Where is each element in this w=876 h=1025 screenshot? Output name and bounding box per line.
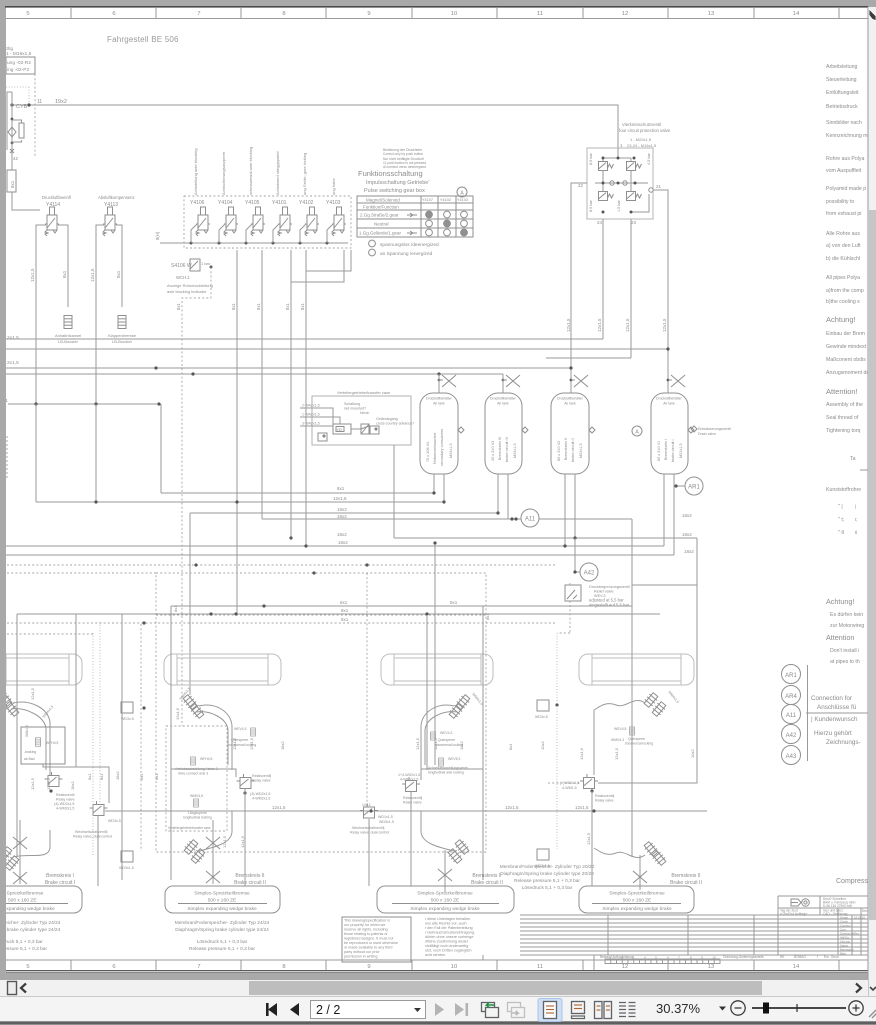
svg-text:Relay valve, dual control: Relay valve, dual control	[350, 831, 389, 835]
battery box -02-R2	[6, 57, 35, 74]
svg-text:LB-Booster: LB-Booster	[58, 339, 79, 344]
svg-text:Ers: Ers	[824, 955, 829, 959]
svg-text:Anhaltritzansel: Anhaltritzansel	[55, 333, 81, 338]
wire e1 line	[8, 403, 160, 405]
svg-text:LB-Booster: LB-Booster	[112, 339, 133, 344]
svg-text:12x1,5: 12x1,5	[30, 687, 35, 700]
dashed line down from relief valve	[569, 605, 571, 633]
bus junction dots 2	[235, 491, 576, 547]
drain x axle2 b	[206, 871, 220, 883]
wire Y4113 left branch	[96, 225, 104, 503]
svg-text:Attention!: Attention!	[826, 387, 858, 396]
svg-text:M22x1,5: M22x1,5	[679, 443, 683, 458]
svg-text:Bremskreis III: Bremskreis III	[498, 437, 502, 460]
drain x axle4	[633, 871, 647, 883]
gear valve group frame dash-dot	[184, 196, 351, 248]
function table	[357, 196, 473, 237]
svg-text:500 x 160 ZE: 500 x 160 ZE	[623, 898, 652, 904]
svg-text:or made available to any third: or made available to any third	[344, 946, 392, 950]
wire Y4114 right branch to booster	[58, 225, 68, 307]
svg-text:8x1: 8x1	[485, 613, 490, 620]
horizontal scrollbar thumb	[249, 981, 762, 995]
title block row texts	[840, 915, 865, 955]
riser transfer case	[393, 445, 395, 538]
brake chamber axle4 upper	[643, 691, 660, 708]
svg-text:Quersperre: Quersperre	[628, 737, 645, 741]
scrollbar left arrow	[21, 984, 26, 993]
svg-text:10x2: 10x2	[459, 741, 464, 750]
svg-text:tl: tl	[855, 530, 857, 535]
svg-text:Druckluftbehälter: Druckluftbehälter	[426, 397, 453, 401]
svg-text:b) die Kühlschl: b) die Kühlschl	[826, 256, 860, 262]
svg-text:Schaltung: Schaltung	[344, 402, 360, 406]
svg-text:AR4: AR4	[785, 694, 797, 700]
air tank 3	[551, 393, 595, 474]
verticals lower right	[426, 615, 428, 770]
scrollbar right arrow	[856, 984, 861, 993]
control note above valves	[383, 148, 426, 169]
lower right return wire	[631, 194, 649, 212]
svg-text:4-WM1,5: 4-WM1,5	[562, 786, 577, 790]
svg-text:Arbeitsleitung: Arbeitsleitung	[826, 64, 858, 70]
svg-text:4-WM2x1,5: 4-WM2x1,5	[252, 797, 270, 801]
pipe axle4 lower	[594, 848, 645, 858]
svg-text:12x1,5: 12x1,5	[575, 805, 589, 810]
svg-text:2-WA2x1,5: 2-WA2x1,5	[302, 404, 320, 408]
air tank 2	[485, 393, 528, 474]
svg-text:party without our prior: party without our prior	[344, 950, 380, 954]
air tank 4	[651, 393, 694, 474]
lower bus 8x1 h	[171, 605, 632, 607]
svg-text:M22x1,5: M22x1,5	[513, 443, 517, 458]
svg-text:12: 12	[622, 964, 628, 970]
protection valve mid rail	[595, 182, 648, 184]
svg-text:Air tank: Air tank	[663, 402, 675, 406]
svg-text:8: 8	[282, 11, 285, 17]
svg-text:18x2: 18x2	[338, 540, 348, 545]
wire bus to axle4 relay	[598, 538, 697, 783]
svg-text:WFH4,5: WFH4,5	[200, 757, 213, 761]
svg-text:14: 14	[793, 11, 800, 17]
svg-text:ng brake cylinder type 24/24: ng brake cylinder type 24/24	[0, 927, 61, 933]
logo	[791, 899, 801, 906]
svg-text:Brake circuit II: Brake circuit II	[670, 880, 702, 886]
svg-text:Air tank: Air tank	[433, 402, 445, 406]
bus 18x2 main lower	[394, 537, 697, 539]
toolbar: continuous icon	[572, 1002, 585, 1014]
svg-text:12x1,5: 12x1,5	[579, 747, 584, 760]
brake feed vertical box3	[410, 792, 412, 886]
top ruler band bottom line	[6, 18, 868, 20]
dryer column	[7, 92, 12, 150]
drain valve x tank3	[574, 375, 588, 387]
wire left edge down	[12, 192, 40, 210]
svg-text:BOMAG: BOMAG	[794, 955, 806, 959]
svg-text:pressure 5,1 + 0,3 bar: pressure 5,1 + 0,3 bar	[0, 946, 47, 952]
svg-text:Membran/Federspeicher- Zylinde: Membran/Federspeicher- Zylinder Typ 20/2…	[500, 864, 595, 870]
svg-text:12x1,5: 12x1,5	[30, 777, 35, 790]
vertical line below title	[593, 955, 595, 970]
wire stub AR1	[674, 485, 685, 487]
svg-text:brake circuit I: brake circuit I	[671, 439, 675, 462]
svg-text:M22x1,5: M22x1,5	[579, 443, 583, 458]
svg-text:10: 10	[451, 964, 457, 970]
svg-text:1,5 bar: 1,5 bar	[617, 199, 621, 212]
svg-text:Impulsschaltung Getriebe': Impulsschaltung Getriebe'	[366, 180, 429, 186]
svg-text:Relay valve: Relay valve	[403, 801, 422, 805]
toolbar: zoom in circle	[849, 1001, 863, 1015]
page top dark edge	[5, 6, 868, 8]
axle 3 capsule	[381, 654, 493, 685]
svg-text:secondary consumers: secondary consumers	[440, 429, 444, 466]
svg-text:our property for which we: our property for which we	[344, 923, 385, 927]
toolbar: prev page button	[290, 1003, 299, 1016]
check valve diamond	[8, 127, 16, 137]
svg-text:ung -02-R2: ung -02-R2	[7, 60, 31, 66]
drain x axle3	[438, 869, 452, 881]
svg-text:Relay valve: Relay valve	[252, 779, 271, 783]
svg-text:Bestand Aufbauleistung: Bestand Aufbauleistung	[600, 955, 634, 959]
svg-text:Release pressure 5,1 + 0,3 bar: Release pressure 5,1 + 0,3 bar	[189, 946, 255, 952]
svg-text:ung Gelde; gore locking: ung Gelde; gore locking	[302, 153, 307, 195]
svg-text:4-WM2x1,5: 4-WM2x1,5	[56, 807, 74, 811]
wire drops to lower bus	[35, 404, 37, 502]
toolbar: facing pages icon	[595, 1002, 612, 1019]
svg-text:Gewinde mindest: Gewinde mindest	[826, 344, 867, 350]
svg-text:Druckbegrenzungsventil: Druckbegrenzungsventil	[589, 585, 630, 589]
protection valve lower right element	[627, 192, 642, 201]
svg-text:WD3x.5: WD3x.5	[535, 715, 548, 719]
pipe axle4 upper	[594, 700, 645, 710]
svg-text:r Gebrauchsmustereintragung.: r Gebrauchsmustereintragung.	[425, 931, 475, 935]
riser corners left	[160, 404, 162, 493]
svg-text:Ta: Ta	[850, 456, 856, 462]
svg-text:42: 42	[13, 156, 19, 161]
svg-text:18x2: 18x2	[337, 532, 347, 537]
svg-text:WCH.1: WCH.1	[176, 275, 190, 280]
svg-text:7: 7	[197, 11, 200, 17]
svg-text:Simplex expanding wedge brake: Simplex expanding wedge brake	[410, 906, 480, 912]
svg-text:Absluftkompensenz: Absluftkompensenz	[98, 195, 135, 200]
toolbar: next page button (disabled)	[435, 1003, 444, 1016]
svg-text:'' t;: '' t;	[838, 517, 844, 523]
drain valve x tank2	[506, 375, 520, 387]
svg-text:This drawing/specification is: This drawing/specification is	[344, 919, 390, 923]
svg-text:12x1,5: 12x1,5	[415, 737, 420, 750]
svg-text:Alle Rohre aus: Alle Rohre aus	[826, 231, 860, 237]
drain line axle3	[444, 850, 446, 892]
svg-text:WD1x1,5: WD1x1,5	[378, 815, 393, 819]
svg-text:Relaisventil|: Relaisventil|	[403, 796, 422, 800]
svg-text:Funktionsschaltung: Funktionsschaltung	[358, 169, 423, 178]
svg-text:Fahrgestell BE 506: Fahrgestell BE 506	[107, 35, 179, 44]
svg-text:2.Gg.Straße/2.gear: 2.Gg.Straße/2.gear	[360, 213, 399, 218]
svg-text:10: 10	[712, 956, 716, 960]
svg-text:Seal thread of: Seal thread of	[826, 415, 859, 421]
bus 18x2 to tank2	[190, 512, 498, 514]
WFH4,5 axle2	[191, 757, 196, 765]
svg-text:Drain valve: Drain valve	[698, 432, 716, 436]
svg-text:WD3x,5: WD3x,5	[108, 819, 121, 823]
brake feed vertical box1	[97, 816, 99, 886]
svg-text:Membran/Federspeicher- Zylinde: Membran/Federspeicher- Zylinder Typ 24/2…	[175, 920, 270, 926]
booster cylinder 2	[118, 316, 126, 329]
svg-text:Hierzu gehört: Hierzu gehört	[814, 730, 852, 737]
svg-text:Relay valve: Relay valve	[56, 798, 75, 802]
window surround left gray strip	[0, 0, 6, 979]
svg-text:Diaphragm/Spring brake cylinde: Diaphragm/Spring brake cylinder type 20/…	[500, 871, 594, 877]
transfer case stub pipes	[300, 408, 333, 424]
vertical scrollbar bottom arrow	[870, 987, 876, 990]
svg-text:WD5x1,5: WD5x1,5	[379, 820, 394, 824]
svg-text:9: 9	[367, 964, 370, 970]
svg-text:Release pressure 5,1 + 0,3 bar: Release pressure 5,1 + 0,3 bar	[514, 878, 580, 884]
svg-text:18x2: 18x2	[280, 741, 285, 750]
svg-text:Entlüftungsleit: Entlüftungsleit	[826, 90, 859, 96]
svg-text:12x1,5: 12x1,5	[30, 268, 35, 282]
svg-text:1-WA2x1,5: 1-WA2x1,5	[302, 413, 320, 417]
svg-text:Entwässerungsventil: Entwässerungsventil	[698, 427, 731, 431]
wire pv drop 21	[653, 190, 668, 393]
svg-text:transversal locking: transversal locking	[625, 742, 653, 746]
svg-text:Bremskreis II: Bremskreis II	[472, 873, 501, 879]
svg-text:8x1: 8x1	[154, 773, 159, 780]
svg-text:WD3x1,5: WD3x1,5	[119, 866, 134, 870]
svg-text:Achtstwerd stieggspartel: Achtstwerd stieggspartel	[275, 151, 280, 195]
brake type box axle3	[377, 886, 514, 913]
scrollbar page icon left	[8, 982, 17, 995]
svg-text:S4106 W: S4106 W	[171, 263, 192, 269]
svg-text:b)the cooling s: b)the cooling s	[826, 299, 860, 305]
protection valve upper right element	[627, 162, 642, 171]
svg-text:Tightening torq: Tightening torq	[826, 428, 861, 434]
bus junction dots	[154, 347, 669, 381]
svg-text:22: 22	[578, 183, 584, 188]
svg-text:21: 21	[656, 184, 662, 189]
svg-text:8: 8	[282, 964, 285, 970]
wire down to port	[11, 143, 13, 170]
brake chamber axle1 upper	[0, 690, 13, 707]
svg-text:14 12: 14 12	[362, 803, 371, 807]
legend energized	[369, 249, 376, 256]
tank3 outlet pipe b	[574, 474, 576, 572]
svg-text:11: 11	[537, 964, 543, 970]
six gear valves rotated labels above	[193, 147, 336, 195]
svg-text:A11: A11	[525, 517, 536, 523]
svg-text:40 x 310 V3: 40 x 310 V3	[491, 441, 495, 461]
surround band below page	[0, 973, 876, 980]
axle3 quersperre cluster	[630, 727, 635, 735]
connection circle AR1 legend	[782, 665, 801, 684]
svg-text:reserve all rights, including: reserve all rights, including	[344, 928, 388, 932]
svg-text:8x1: 8x1	[139, 773, 144, 780]
svg-text:Lösedruck 5,1 + 0,3 bar: Lösedruck 5,1 + 0,3 bar	[197, 939, 248, 945]
svg-text:spannungslos /deenergized: spannungslos /deenergized	[380, 242, 439, 248]
svg-text:7: 7	[197, 964, 200, 970]
svg-text:Simplex expanding wedge brake: Simplex expanding wedge brake	[602, 906, 672, 912]
svg-text:r den Fall der Patenterteilung: r den Fall der Patenterteilung	[425, 926, 473, 930]
svg-text:8x1: 8x1	[173, 605, 178, 612]
flag square WD3x1,5 c	[537, 700, 549, 711]
svg-text:possibility to: possibility to	[826, 199, 854, 205]
svg-text:Anzugsmoment de: Anzugsmoment de	[826, 370, 869, 376]
svg-text:8x1: 8x1	[256, 303, 261, 310]
svg-text:Bremskreis II: Bremskreis II	[564, 438, 568, 460]
svg-text:ex-Spreizkeilbremse: ex-Spreizkeilbremse	[0, 891, 44, 897]
svg-text:| Kundenwunsch: | Kundenwunsch	[811, 716, 858, 723]
svg-text:Relaisventil: Relaisventil	[56, 793, 75, 797]
pipe axle2 upper	[199, 705, 232, 770]
svg-text:Druckluftbehälter: Druckluftbehälter	[557, 397, 584, 401]
svg-text:80 x 310 V2: 80 x 310 V2	[557, 441, 561, 461]
filter rect	[19, 123, 24, 138]
title block rows	[520, 915, 868, 955]
svg-text:'' |: '' |	[838, 504, 843, 510]
copyright german	[425, 917, 475, 957]
protection valve lower left element	[599, 192, 614, 201]
dash-dot drop right of box	[34, 74, 36, 156]
main brake bus 12x1,5	[105, 810, 707, 812]
svg-text:registered designs. It must no: registered designs. It must not	[344, 937, 393, 941]
main air bus 2	[6, 348, 668, 350]
svg-text:2x1,5: 2x1,5	[7, 360, 19, 366]
svg-text:Relaisventil|: Relaisventil|	[595, 794, 614, 798]
svg-text:Betriebsdruck: Betriebsdruck	[826, 104, 858, 110]
connection circle AR4 legend	[782, 686, 801, 705]
top ruler numbers	[26, 11, 800, 17]
pressure relief valve WEV.3	[565, 585, 581, 601]
svg-text:Attention: Attention	[826, 633, 854, 642]
svg-text:vielfältigt noch anderweitig: vielfältigt noch anderweitig	[425, 944, 468, 948]
drain valve x tank4	[671, 375, 685, 387]
svg-text:10x2: 10x2	[690, 749, 695, 758]
axle1 wrap wire	[16, 614, 18, 857]
brake chamber axle2 lower	[183, 838, 200, 855]
svg-text:80 x 310 V1: 80 x 310 V1	[657, 441, 661, 461]
svg-text:Verteilergetriebe/transfer cas: Verteilergetriebe/transfer case	[337, 390, 391, 395]
svg-text:(4)-WD2x1,5: (4)-WD2x1,5	[54, 802, 74, 806]
long gear lines from valves	[236, 250, 238, 614]
svg-text:x expanding wedge brake: x expanding wedge brake	[0, 906, 55, 912]
svg-text:Y4103: Y4103	[326, 200, 341, 206]
tank 4 drop	[668, 379, 672, 381]
svg-text:'' tl: '' tl	[838, 530, 844, 536]
main air bus 1	[6, 338, 603, 340]
air tank 1	[420, 393, 464, 474]
svg-text:|: |	[855, 504, 856, 509]
WFH4,3 axle2	[194, 799, 199, 807]
svg-text:Bremskreis II: Bremskreis II	[671, 873, 700, 879]
svg-text:12x1,5: 12x1,5	[505, 805, 519, 810]
toolbar: continuous facing icon	[619, 1003, 636, 1017]
brake chamber axle4 lower	[643, 840, 660, 857]
dotted link	[6, 86, 29, 88]
svg-text:A42: A42	[786, 733, 797, 739]
main air bus 3	[6, 367, 571, 369]
bus 18x2 A11 continuation	[539, 518, 632, 520]
svg-text:AR1: AR1	[785, 673, 797, 679]
svg-text:Brake circuit II: Brake circuit II	[234, 880, 266, 886]
drain line axle4	[639, 855, 641, 890]
svg-text:a) von den Luft: a) von den Luft	[826, 243, 861, 249]
bottom ruler numbers	[26, 964, 800, 970]
svg-text:1 - M16x1,5: 1 - M16x1,5	[6, 51, 32, 57]
svg-text:8,5 bar: 8,5 bar	[589, 199, 593, 212]
bus 18x2 long	[6, 545, 664, 547]
svg-text:Y4105: Y4105	[245, 200, 260, 206]
svg-text:A11: A11	[786, 713, 797, 719]
svg-text:8,5 bar: 8,5 bar	[589, 152, 593, 165]
svg-text:12x1,5: 12x1,5	[597, 318, 602, 332]
pipe axle3 lower	[421, 811, 454, 851]
svg-text:permission in writing.: permission in writing.	[344, 955, 378, 959]
svg-text:be reproduced or used otherwis: be reproduced or used otherwise	[344, 941, 398, 945]
svg-text:Y4107: Y4107	[422, 198, 433, 202]
svg-text:8x1: 8x1	[176, 303, 181, 310]
svg-text:5: 5	[26, 964, 29, 970]
svg-text:Funktion/Function: Funktion/Function	[363, 205, 399, 210]
svg-text:18x2: 18x2	[682, 532, 692, 537]
svg-text:WEV4,5: WEV4,5	[614, 727, 627, 731]
svg-text:Kunststoffrohre: Kunststoffrohre	[826, 487, 861, 493]
dashed lower lines	[7, 564, 557, 566]
svg-text:Bremskreis I: Bremskreis I	[664, 439, 668, 460]
svg-text:from exhaust pi: from exhaust pi	[826, 211, 861, 217]
brake chamber axle3 upper	[455, 693, 472, 710]
circle A near tank4	[632, 426, 642, 436]
svg-text:Druckluftbehälter: Druckluftbehälter	[656, 397, 683, 401]
brake chamber axle3 lower	[454, 838, 471, 855]
bus 18x2 long b	[6, 554, 674, 556]
toolbar: page number box	[311, 1001, 426, 1019]
svg-text:30.37%: 30.37%	[656, 1001, 701, 1016]
svg-text:12x1,5: 12x1,5	[240, 835, 245, 848]
svg-text:8x1: 8x1	[87, 773, 92, 780]
svg-text:4,5 bar: 4,5 bar	[647, 152, 651, 165]
svg-text:Maßconent obdis: Maßconent obdis	[826, 357, 866, 363]
svg-text:18x2: 18x2	[337, 514, 347, 519]
svg-text:Achtschterungsanzperre: Achtschterungsanzperre	[221, 151, 226, 195]
svg-text:Druckluftbehälter: Druckluftbehälter	[490, 397, 517, 401]
dashed laterals lower	[92, 633, 94, 857]
svg-text:18x2: 18x2	[70, 781, 75, 790]
svg-text:Simplex-Spreizkeilbremse: Simplex-Spreizkeilbremse	[609, 891, 665, 897]
svg-text:Relief valve: Relief valve	[594, 590, 614, 594]
dashed link S4106	[210, 266, 213, 269]
svg-text:11: 11	[537, 11, 543, 17]
tank2 outlet pipe b	[507, 474, 509, 519]
wire Y4114 left branch	[36, 225, 46, 502]
legend text	[811, 695, 861, 746]
svg-text:12x1,5: 12x1,5	[232, 737, 237, 750]
svg-text:schmauerwal ante blocking: schmauerwal ante blocking	[248, 147, 253, 195]
svg-text:13: 13	[708, 11, 714, 17]
svg-text:Rev.: Rev.	[854, 931, 860, 935]
svg-text:8(H): 8(H)	[155, 231, 160, 240]
svg-text:Polyamid made p: Polyamid made p	[826, 186, 866, 192]
svg-text:Lösedruck 5,1 + 0,3 bar: Lösedruck 5,1 + 0,3 bar	[522, 885, 573, 891]
brake type box axle2	[165, 886, 280, 913]
svg-text:8x1: 8x1	[62, 270, 67, 278]
svg-text:Control only by push button: Control only by push button	[383, 152, 423, 156]
toolbar background	[0, 996, 876, 1022]
svg-text:drive connect axle 3: drive connect axle 3	[178, 772, 208, 776]
relay valve axle2	[237, 774, 255, 789]
axle 4 capsule	[579, 654, 694, 685]
tank3 outlet pipe a	[564, 474, 566, 546]
brake chamber axle1 lower	[0, 845, 13, 862]
flag square WD3x1,5 b	[121, 851, 133, 862]
